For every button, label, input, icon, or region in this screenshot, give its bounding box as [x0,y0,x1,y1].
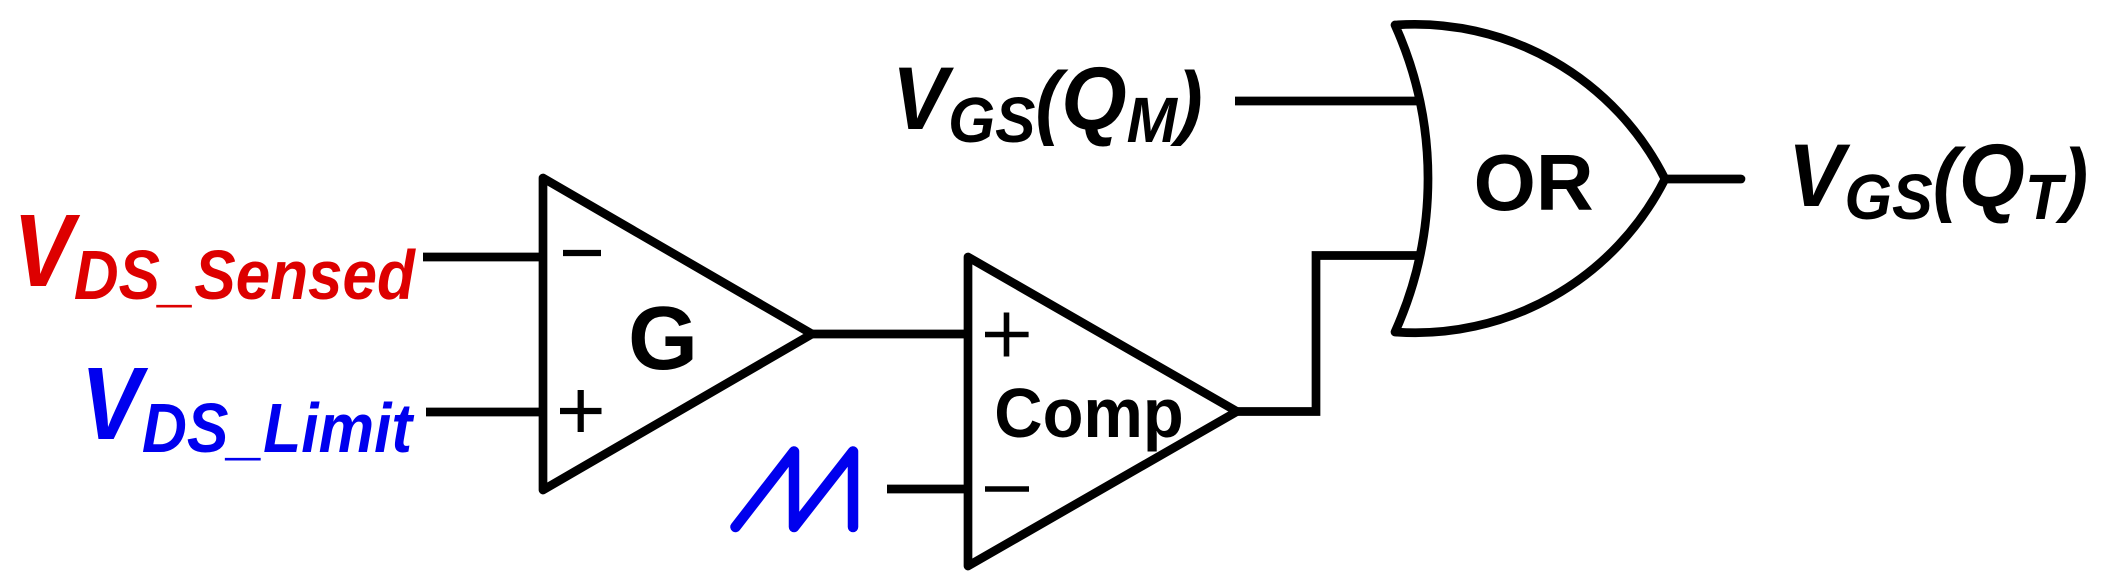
Comp plus sign (non-inverting input) [985,313,1029,357]
OR gate [1395,24,1665,332]
wire V_DS_Sensed to G inverting input [423,253,547,262]
wire Comp output step up to OR gate lower input [1237,256,1421,412]
svg-text:Comp: Comp [994,374,1183,453]
wire V_DS_Limit to G non-inverting input [426,408,547,417]
Comp minus sign (inverting input) [985,486,1029,492]
svg-text:OR: OR [1474,138,1594,227]
sawtooth ramp symbol (blue) [736,452,854,528]
wire OR gate output [1665,175,1741,184]
wire G output to Comp non-inverting input [808,330,972,339]
op-amp G (error amplifier triangle) [543,178,812,490]
svg-text:G: G [628,289,698,389]
G minus sign (inverting input) [563,250,601,256]
wire sawtooth to Comp inverting input [887,485,972,494]
wire V_GS(Q_M) to OR gate upper input [1235,97,1427,106]
G plus sign (non-inverting input) [560,390,602,432]
comparator Comp (triangle) [968,257,1237,566]
